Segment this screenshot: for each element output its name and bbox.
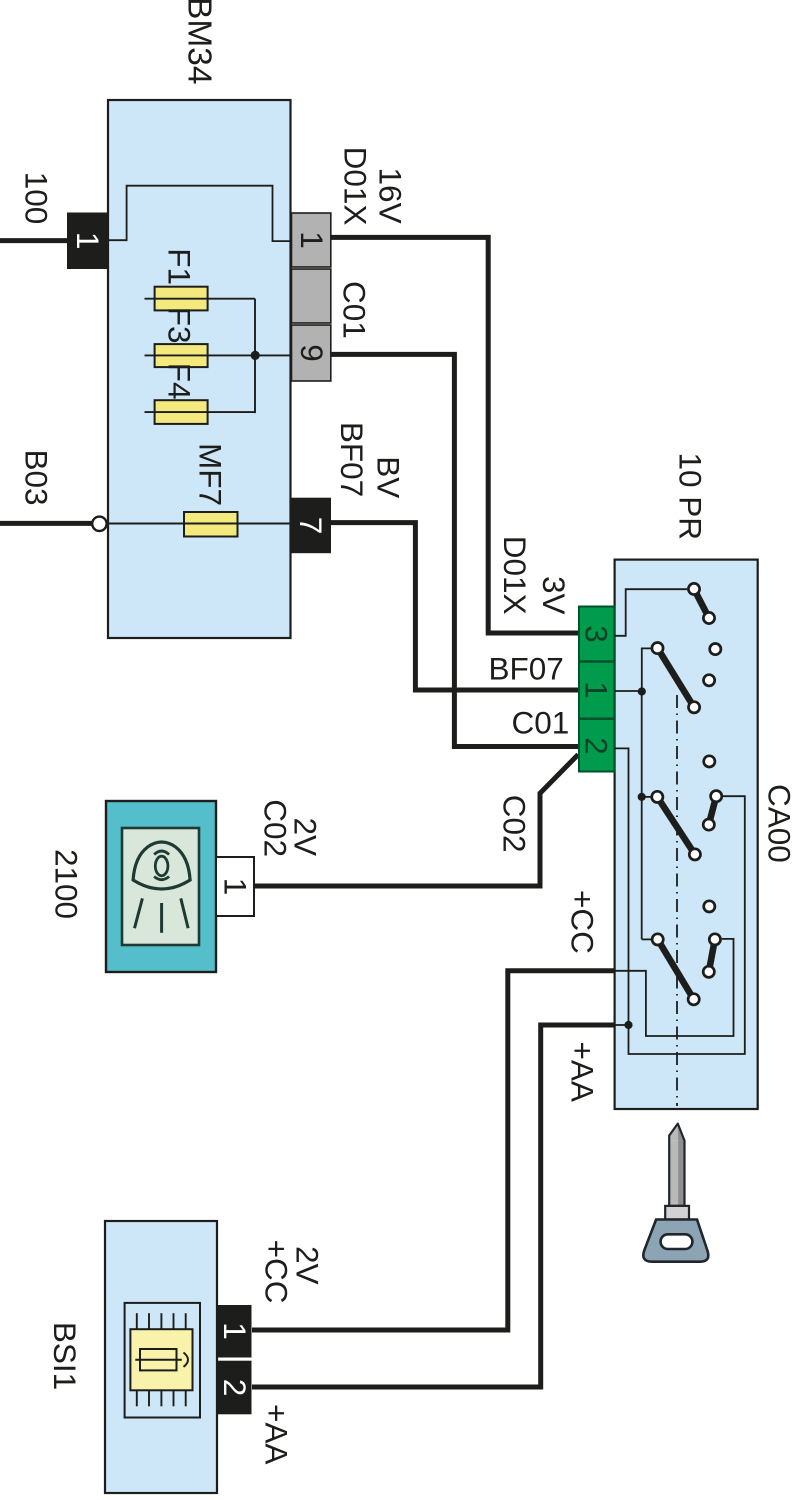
connector green pin 1	[579, 681, 615, 718]
internal fuse bus	[254, 299, 256, 413]
switch S4 lever	[658, 939, 694, 999]
svg-text:3: 3	[579, 625, 615, 643]
svg-text:2: 2	[579, 737, 615, 755]
switch S3b contact b	[703, 819, 714, 830]
switch S1 lever	[694, 589, 709, 618]
svg-text:F1: F1	[162, 248, 198, 285]
wire green pin1 to junction	[615, 690, 642, 692]
wire C01 gray pin9 to green pin2	[331, 354, 578, 746]
connector green pin 3	[579, 625, 615, 661]
svg-text:1: 1	[218, 878, 254, 896]
svg-text:2: 2	[217, 1379, 253, 1397]
connector BSI1 pin 2	[217, 1361, 253, 1415]
control unit BSI1 box	[105, 1221, 217, 1493]
key axis dashed line	[676, 695, 678, 1106]
connector BSI1 pin 1	[217, 1305, 253, 1358]
junction dot S3 feed	[638, 793, 646, 801]
wire green pin3 to switch contact	[615, 589, 687, 636]
switch S2 pivot	[652, 643, 663, 654]
junction dot pin1 bus	[638, 687, 646, 695]
ignition switch CA00 box	[615, 560, 758, 1109]
wire 100	[0, 238, 67, 243]
interior lamp 2100 box	[106, 801, 216, 972]
switch S4b lever	[709, 939, 715, 971]
switch S2 lever	[658, 648, 695, 707]
svg-text:C02: C02	[258, 799, 294, 857]
svg-text:F4: F4	[162, 363, 198, 400]
svg-text:BV: BV	[371, 456, 407, 498]
svg-text:C01: C01	[337, 281, 373, 339]
pin1 bus to switch pivots	[642, 648, 652, 939]
switch S2 lever end	[689, 702, 700, 713]
junction dot fuse bus	[251, 351, 260, 360]
connector pin 7 BF07 black	[290, 498, 331, 554]
svg-text:+AA: +AA	[565, 1042, 601, 1102]
svg-text:2V: 2V	[290, 1246, 326, 1285]
svg-text:1: 1	[70, 232, 106, 250]
svg-text:C02: C02	[497, 795, 533, 853]
fuse MF7	[108, 512, 291, 537]
switch S3 pivot	[652, 791, 663, 802]
svg-text:7: 7	[293, 517, 329, 535]
svg-text:10 PR: 10 PR	[673, 453, 709, 541]
svg-text:9: 9	[294, 344, 330, 362]
junction dot +AA	[624, 1021, 632, 1029]
ignition key icon	[643, 1124, 708, 1262]
svg-text:CA00: CA00	[762, 784, 793, 863]
svg-text:F3: F3	[162, 307, 198, 344]
svg-text:1: 1	[294, 231, 330, 249]
connector pin 1 (BM34 battery feed)	[67, 213, 108, 270]
BSI1 inner frame	[125, 1303, 200, 1418]
contact position circle	[704, 756, 715, 767]
svg-text:C01: C01	[512, 705, 570, 741]
contact position circle	[704, 675, 715, 686]
svg-text:+CC: +CC	[565, 890, 601, 954]
internal bus bar pin1 to gray pin1	[103, 186, 292, 241]
wire B03	[0, 521, 92, 526]
fuse F1	[145, 287, 256, 311]
svg-text:B03: B03	[19, 449, 55, 505]
lamp icon	[133, 842, 190, 933]
switch S3b contact a	[711, 791, 722, 802]
wire +AA internal stub	[615, 1024, 629, 1026]
switch S4b contact a	[709, 934, 720, 945]
switch S1 contact a	[688, 583, 699, 594]
connector C01 gray middle block	[292, 269, 331, 323]
svg-text:2100: 2100	[49, 849, 85, 919]
contact position circle	[704, 901, 715, 912]
svg-text:3V: 3V	[536, 576, 572, 615]
wire +CC from BSI1 pin1	[252, 971, 615, 1330]
wire +AA from BSI1 pin2	[252, 1025, 615, 1387]
connector 2100 pin 1	[216, 857, 254, 916]
svg-text:+AA: +AA	[259, 1404, 295, 1464]
switch S3 lever end	[689, 849, 700, 860]
svg-text:100: 100	[19, 172, 55, 225]
switch S1 contact b	[703, 612, 714, 623]
wire C02 from lamp 2100 to green pin2	[254, 755, 578, 887]
BSI1 chip icon	[130, 1313, 192, 1406]
svg-text:1: 1	[217, 1322, 253, 1340]
svg-text:BSI1: BSI1	[47, 1322, 83, 1390]
svg-text:D01X: D01X	[497, 536, 533, 615]
switch S4b contact b	[703, 966, 714, 977]
connector C01 gray pin 9	[292, 325, 331, 381]
wire 16V D01X to 3V D01X	[331, 237, 578, 633]
switch S3b lever	[709, 796, 716, 824]
fuse box BM34	[108, 100, 291, 638]
wire green pin2 internal bus	[615, 748, 745, 1054]
svg-text:+CC: +CC	[259, 1240, 295, 1304]
svg-text:BM34: BM34	[181, 0, 218, 85]
svg-text:BF07: BF07	[334, 422, 370, 497]
wire junction to gray pin9	[255, 354, 293, 356]
lamp screen	[122, 828, 199, 945]
node B03 junction circle	[92, 517, 106, 531]
connector green C01/BF07/D01X body	[579, 607, 614, 772]
switch S4 pivot	[652, 934, 663, 945]
svg-text:MF7: MF7	[193, 443, 229, 506]
svg-text:BF07: BF07	[489, 651, 564, 687]
contact position circle	[710, 644, 721, 655]
wire +CC internal	[615, 939, 734, 1036]
fuse F4	[145, 400, 256, 424]
svg-text:1: 1	[579, 681, 615, 699]
switch S3 lever	[657, 797, 695, 855]
switch S4 lever end	[688, 994, 699, 1005]
svg-text:D01X: D01X	[337, 147, 373, 226]
svg-text:16V: 16V	[373, 168, 409, 224]
connector C01 gray (BM34) pin 1	[292, 213, 331, 267]
fuse F3	[145, 344, 256, 367]
wire BV BF07 pin7 to green pin1	[331, 523, 578, 690]
